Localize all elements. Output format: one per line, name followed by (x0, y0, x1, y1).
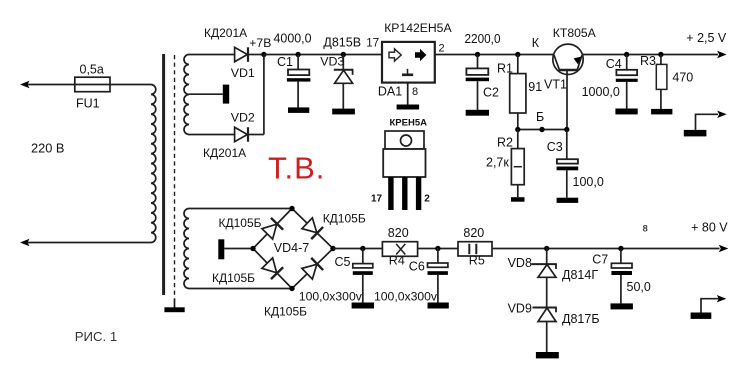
svg-text:2,7к: 2,7к (486, 156, 509, 170)
svg-text:КД201А: КД201А (204, 26, 247, 40)
node C1 (295, 52, 300, 57)
svg-text:0,5a: 0,5a (80, 62, 104, 76)
ground C2 (466, 110, 489, 116)
capacitor C3 (566, 130, 568, 160)
svg-text:Д815В: Д815В (323, 36, 361, 50)
svg-text:8: 8 (643, 224, 648, 235)
zener VD9 (533, 307, 557, 309)
capacitor C7 (620, 249, 622, 264)
svg-text:820: 820 (463, 226, 484, 240)
wire chassis to bridge left (224, 248, 253, 250)
node bridge right (330, 246, 335, 251)
svg-text:50,0: 50,0 (627, 280, 651, 294)
svg-text:VT1: VT1 (544, 77, 567, 91)
ground R3 (651, 109, 672, 115)
transformer core (162, 54, 165, 295)
svg-text:КД201А: КД201А (203, 146, 246, 160)
diode VD4 (top-left arm) (261, 218, 283, 240)
svg-text:C3: C3 (547, 140, 563, 154)
wire DA1 pin 8 to ground (407, 83, 409, 105)
ground C4 (615, 109, 637, 115)
ground C1 (288, 107, 309, 113)
node C4 (624, 52, 629, 57)
svg-text:1000,0: 1000,0 (582, 85, 620, 99)
svg-text:R1: R1 (497, 61, 513, 75)
diode VD2 (235, 127, 248, 142)
svg-text:+ 80 V: + 80 V (691, 220, 728, 234)
DA1 input arrow (hollow) (389, 49, 401, 61)
package КРЕН5А tab (385, 131, 424, 149)
svg-text:C7: C7 (592, 253, 608, 267)
wire winding III top to bridge (189, 208, 292, 210)
node C2 (475, 52, 480, 57)
ground C5 (352, 303, 374, 309)
svg-text:FU1: FU1 (76, 97, 100, 111)
svg-text:VD1: VD1 (231, 66, 255, 80)
svg-text:470: 470 (672, 70, 693, 84)
wire VD2 cathode to join (248, 134, 264, 136)
diode bridge VD4-7 frame (253, 209, 333, 289)
ground C6 (428, 303, 449, 309)
capacitor C5 (362, 249, 364, 264)
ground of screen (164, 307, 184, 312)
ground top-right output (684, 130, 707, 137)
svg-text:C6: C6 (409, 260, 425, 274)
svg-text:VD4-7: VD4-7 (274, 241, 309, 255)
transformer T1 primary winding (151, 85, 156, 243)
svg-text:R4: R4 (389, 253, 405, 267)
transformer secondary winding II (upper) (184, 55, 189, 135)
wire R4 to R5 (418, 248, 459, 250)
ground C3 (557, 198, 579, 203)
ground DA1 (397, 105, 420, 110)
wire emitter to +2,5V (582, 54, 718, 56)
svg-text:КТ805А: КТ805А (553, 26, 597, 40)
svg-text:100,0х300v: 100,0х300v (299, 289, 363, 303)
svg-text:C5: C5 (335, 255, 351, 269)
arrow +80V (719, 245, 729, 252)
capacitor C1 (297, 55, 299, 70)
diode VD6 (bottom-left arm) (261, 257, 283, 279)
diode VD1 (235, 47, 248, 62)
svg-text:Д814Г: Д814Г (562, 268, 598, 282)
svg-text:C4: C4 (606, 57, 622, 71)
svg-text:Б: Б (536, 110, 544, 124)
package КРЕН5А body (383, 149, 425, 177)
wire chassis top-right (696, 114, 719, 130)
arrow chassis bottom-right (717, 295, 727, 302)
svg-text:C1: C1 (277, 55, 293, 69)
node C5 (360, 246, 365, 251)
zener VD3 (342, 55, 344, 70)
wire 220V top line (27, 84, 151, 86)
package КРЕН5А legs (388, 177, 393, 210)
ground C7 (611, 303, 633, 309)
zener VD8 (546, 249, 548, 265)
transistor VT1 (553, 44, 583, 74)
resistor R1 (517, 55, 519, 74)
svg-text:+7В: +7В (249, 36, 271, 50)
op-amp U1 / regulator DA1 box (382, 42, 435, 83)
fuse FU1 (75, 77, 110, 92)
svg-text:КР142ЕН5А: КР142ЕН5А (384, 21, 452, 35)
chassis bar (center tap) (223, 85, 229, 104)
chassis bar (bridge minus) (218, 239, 224, 259)
arrow chassis top-right (717, 111, 727, 118)
node bridge left (250, 246, 255, 251)
svg-text:17: 17 (366, 38, 379, 50)
svg-text:R2: R2 (497, 136, 513, 150)
svg-text:220 В: 220 В (31, 141, 64, 156)
svg-text:КД105Б: КД105Б (264, 305, 307, 319)
svg-text:R3: R3 (640, 54, 656, 68)
svg-text:Т.В.: Т.В. (268, 151, 325, 186)
svg-text:2: 2 (424, 194, 430, 205)
svg-text:КД105Б: КД105Б (219, 216, 262, 230)
arrow 220V bottom (20, 239, 30, 246)
node R1 top (515, 52, 520, 57)
svg-text:C2: C2 (483, 86, 499, 100)
wire screen to ground (174, 299, 176, 308)
wire +7V rail (264, 54, 382, 56)
svg-text:8: 8 (412, 86, 418, 98)
wire 220V bottom line (27, 242, 151, 244)
transformer secondary winding III (lower) (184, 209, 189, 289)
transformer screen (dashed) (174, 55, 176, 300)
svg-text:К: К (532, 36, 540, 50)
ground VD9 (536, 352, 559, 358)
arrow +2,5V (717, 51, 727, 58)
node VD1-VD2 join (261, 52, 266, 57)
resistor R3 (660, 55, 662, 65)
node VD3 (341, 52, 346, 57)
svg-text:Д817Б: Д817Б (562, 312, 600, 326)
wire base rail (518, 129, 567, 131)
svg-text:КД105Б: КД105Б (212, 271, 255, 285)
arrow 220V top (20, 81, 30, 88)
svg-text:820: 820 (388, 226, 409, 240)
node VD8 (544, 246, 549, 251)
wire join vertical (263, 55, 265, 135)
svg-text:DA1: DA1 (378, 85, 402, 99)
node bridge top (289, 206, 294, 211)
svg-text:VD2: VD2 (231, 111, 255, 125)
svg-text:VD9: VD9 (508, 302, 532, 316)
diode VD7 (bottom-right arm) (301, 258, 323, 280)
svg-text:17: 17 (371, 194, 383, 205)
wire +80V rail (492, 248, 720, 250)
capacitor C6 (437, 249, 439, 264)
ground bottom-right output (691, 313, 712, 319)
svg-text:91: 91 (528, 80, 542, 94)
ground R2 (511, 197, 525, 202)
node R3 (658, 52, 663, 57)
svg-text:РИС. 1: РИС. 1 (75, 329, 117, 344)
capacitor C2 (477, 55, 479, 69)
svg-text:4000,0: 4000,0 (274, 31, 312, 45)
svg-text:100,0х300v: 100,0х300v (374, 290, 438, 304)
wire VD1 cathode to node (248, 54, 264, 56)
wire winding II center tap (189, 93, 223, 95)
diode VD5 (top-right arm) (301, 217, 323, 239)
resistor R4 (382, 242, 417, 257)
wire bridge to R4 (333, 248, 384, 250)
node base 2 (539, 127, 544, 132)
wire winding II top to VD1 (189, 54, 235, 56)
DA1 internal ground symbol (407, 69, 409, 75)
node C6 (435, 246, 440, 251)
svg-text:+ 2,5 V: + 2,5 V (686, 31, 727, 45)
ground VD3 (332, 109, 355, 115)
svg-text:2200,0: 2200,0 (465, 32, 501, 46)
wire DA1 pin2 to rail (435, 54, 554, 56)
node bridge bottom (289, 286, 294, 291)
resistor R5 (458, 242, 492, 256)
svg-text:VD3: VD3 (320, 55, 344, 69)
svg-text:R5: R5 (469, 253, 485, 267)
svg-text:КРЕН5А: КРЕН5А (390, 118, 428, 129)
svg-text:2: 2 (439, 43, 445, 55)
svg-text:КД105Б: КД105Б (323, 211, 366, 225)
svg-text:100,0: 100,0 (573, 175, 604, 189)
wire winding III bottom to bridge (189, 288, 292, 290)
svg-text:VD8: VD8 (508, 256, 532, 270)
wire winding II bottom to VD2 (189, 134, 235, 136)
wire chassis bottom-right (701, 299, 720, 313)
DA1 output arrow (solid) (415, 49, 426, 61)
capacitor C4 (626, 55, 628, 70)
resistor R2 (517, 130, 519, 149)
node base 1 (515, 127, 520, 132)
node base 3 (564, 127, 569, 132)
node C7 (618, 246, 623, 251)
